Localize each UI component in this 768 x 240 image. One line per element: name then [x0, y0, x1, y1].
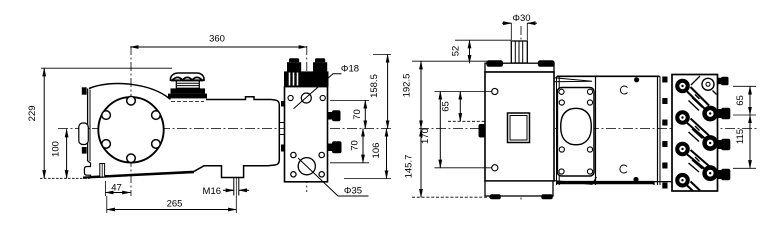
head right edge plug lower — [328, 144, 333, 152]
svg-text:229: 229 — [27, 105, 38, 121]
discharge port plug 1 — [718, 77, 729, 85]
svg-text:Φ30: Φ30 — [512, 13, 530, 24]
svg-text:52: 52 — [451, 46, 462, 57]
spacer dowel bottom — [633, 177, 638, 182]
svg-text:158.5: 158.5 — [369, 74, 380, 98]
M16 stud — [233, 178, 235, 196]
svg-text:Φ35: Φ35 — [344, 186, 362, 197]
dimension 158.5 — [387, 55, 389, 129]
top-left corner tab — [82, 87, 87, 94]
gearbox top wedge — [554, 78, 592, 82]
discharge port plug 4 — [718, 169, 731, 181]
body left edge double line — [87, 89, 89, 162]
oil filler cap dome — [171, 73, 205, 80]
crankcase bolt hole bottom — [492, 165, 498, 171]
cover bolt ml upper — [559, 100, 564, 105]
head big circle phi35 — [298, 158, 315, 175]
svg-text:70: 70 — [350, 140, 361, 151]
bottom flange foot left — [490, 194, 501, 199]
dimension 65 left — [459, 92, 461, 122]
head corner hole top-right — [319, 152, 324, 157]
cover bolt 12 o'clock — [127, 96, 136, 105]
body thick base line — [83, 172, 194, 177]
gearbox bottom wedge — [554, 177, 597, 184]
crankcase body — [485, 72, 554, 181]
svg-text:115: 115 — [735, 129, 746, 144]
cover bolt 6 o'clock — [127, 154, 136, 163]
valve seat ring top right (outline) — [702, 78, 714, 90]
dimension 192.5 — [420, 61, 422, 128]
cover bolt 8 o'clock — [102, 140, 111, 149]
valve diagonal connector row4 — [686, 182, 700, 191]
crankcase bolt hole top — [492, 88, 498, 94]
gearbox cover plate — [557, 88, 594, 177]
pump head top hex bolt left — [289, 58, 299, 62]
bottom flange foot right — [541, 194, 553, 199]
head left edge tab upper — [281, 101, 285, 107]
pump head top hex bolt right — [315, 58, 325, 62]
conrod access oval cover — [561, 108, 592, 144]
head left edge tab lower — [281, 145, 285, 152]
hidden line under cap — [171, 101, 204, 103]
centerline vertical shaft right view — [520, 26, 522, 200]
top flange pad left — [486, 60, 503, 67]
dimension 145.7 extension bottom — [412, 196, 490, 198]
cover bolt tr — [587, 89, 592, 94]
svg-text:192.5: 192.5 — [402, 74, 413, 98]
head corner hole top-left — [291, 152, 296, 157]
dimension 65 right — [749, 86, 751, 115]
dimension 229 extension bottom — [40, 177, 90, 179]
pump body outline — [89, 84, 279, 178]
spacer C mark bottom — [620, 165, 627, 173]
stud strip between spacer and head — [662, 77, 667, 83]
cover bolt 10 o'clock — [102, 111, 111, 120]
dimension 65 extension bottom — [448, 120, 485, 122]
crankcase bottom flange — [485, 181, 553, 196]
svg-text:100: 100 — [51, 141, 62, 157]
head face hole right — [320, 95, 325, 100]
valve diagonal connector row2 — [686, 119, 709, 140]
dimension 65 right extension lines — [733, 85, 756, 87]
valve cap R3 — [702, 165, 718, 181]
label phi18 leader — [294, 74, 342, 109]
svg-text:360: 360 — [209, 34, 225, 45]
centerline vertical crankcase — [130, 46, 132, 196]
crankcase cover circle — [98, 97, 163, 162]
dimension 170 extension top — [435, 91, 492, 93]
oil cap neck — [176, 81, 199, 88]
head corner hole bottom-left — [291, 172, 296, 177]
dimension 265 extension right — [235, 196, 237, 213]
cover bolt mr upper — [587, 100, 592, 105]
valve cap L4 — [675, 173, 690, 188]
spacer dowel top — [634, 77, 639, 82]
valve cap R1 — [702, 106, 718, 122]
head face hole left — [288, 95, 293, 100]
dimension 265 extension left — [106, 196, 108, 213]
head right edge plug upper — [328, 112, 333, 120]
discharge port plug 3 — [718, 139, 731, 151]
cover bolt ml lower — [559, 147, 564, 152]
svg-text:145.7: 145.7 — [404, 155, 415, 179]
dimension 70 upper — [364, 100, 366, 128]
dimension 170 extension bottom — [435, 167, 492, 169]
spacer top line — [557, 75, 660, 77]
dimension 47 — [105, 192, 130, 194]
valve leaf marks — [689, 95, 703, 111]
foot stud left — [100, 164, 105, 178]
svg-text:M16: M16 — [203, 186, 221, 197]
head corner hole bottom-right — [319, 172, 324, 177]
spacer bottom line — [557, 181, 654, 184]
cover bolt tl — [559, 89, 564, 94]
valve upper-right stub diagonal — [691, 76, 717, 95]
dimension 70 lower — [362, 129, 364, 163]
dimension 229 extension top — [41, 67, 172, 69]
svg-text:106: 106 — [371, 143, 382, 159]
discharge port plug 2 — [718, 108, 731, 120]
spacer C mark top — [620, 86, 627, 94]
spacer block outline — [595, 76, 597, 185]
oil cap base flange black — [171, 88, 206, 93]
sight glass square — [508, 113, 530, 143]
shaft stub left — [79, 123, 89, 145]
svg-text:65: 65 — [735, 95, 746, 106]
centerline horizontal shaft axis — [58, 128, 391, 130]
dimension 265 — [107, 209, 237, 211]
label phi35 leader — [298, 158, 369, 196]
dimension 115 right — [749, 115, 751, 168]
dimension 100 — [66, 129, 68, 178]
valve cap L1 — [675, 79, 690, 94]
oil cap grip scallops — [171, 77, 204, 80]
top flange pad right — [538, 60, 555, 67]
centerline horizontal right view — [419, 128, 757, 130]
valve diagonal connector row1 — [686, 87, 709, 110]
dimension 47 extension left — [104, 181, 106, 196]
cover bolt bl — [559, 169, 564, 174]
dimension 52 — [469, 40, 471, 63]
crankcase right edge lines — [556, 76, 558, 185]
dimension 106 — [386, 129, 388, 179]
crankcase top flange — [485, 63, 554, 72]
svg-text:65: 65 — [441, 101, 452, 112]
svg-text:265: 265 — [167, 199, 183, 210]
input shaft top — [511, 41, 527, 63]
dimension 158.5 extension top — [373, 54, 391, 56]
cover bolt 4 o'clock — [152, 140, 161, 149]
valve cap L2 — [675, 110, 690, 125]
dimension 145.7 — [420, 129, 422, 198]
valve diagonal connector row3 — [686, 150, 709, 170]
dimension 360 — [130, 46, 306, 48]
dimension 70 upper extension — [330, 99, 369, 101]
pump head block — [285, 87, 328, 182]
cover bolt mr lower — [587, 147, 592, 152]
valve cap L3 — [675, 142, 690, 157]
cover bolt 2 o'clock — [152, 111, 161, 120]
cover bolt br — [587, 169, 592, 174]
head face center hole (phi18) — [301, 93, 311, 103]
oil cap lower base black — [168, 94, 207, 99]
valve cap R2 — [702, 135, 718, 151]
left lower tab — [82, 147, 87, 154]
svg-text:70: 70 — [352, 109, 363, 120]
svg-text:Φ18: Φ18 — [341, 64, 359, 75]
valve head block top view — [672, 75, 718, 192]
dimension 52 extension top — [455, 39, 511, 41]
dimension 192.5 extension top — [412, 60, 487, 62]
dimension 70 lower extension — [330, 162, 369, 164]
dimension 170 — [439, 92, 441, 168]
plunger lines body-to-head — [279, 122, 284, 124]
svg-text:170: 170 — [420, 128, 431, 144]
dimension 106 extension bottom — [344, 178, 391, 180]
dimension 229 — [43, 68, 45, 178]
body left lower edge with foot bump — [84, 161, 90, 176]
pump head top flange (valve cover plate) — [284, 71, 329, 86]
shaft end stub left edge — [479, 124, 486, 138]
centerline vertical pump head — [306, 46, 308, 192]
svg-text:47: 47 — [111, 183, 122, 194]
bottom step to head — [654, 182, 672, 185]
